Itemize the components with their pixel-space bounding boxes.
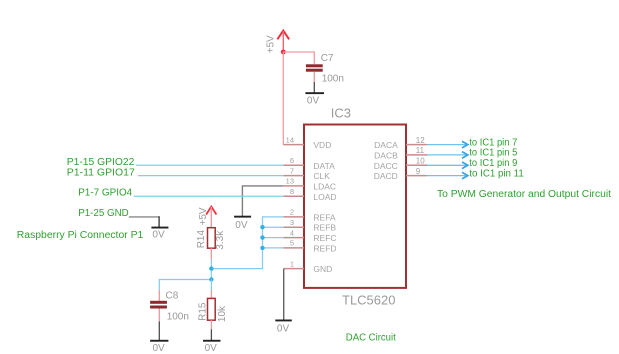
svg-text:LDAC: LDAC xyxy=(313,181,336,191)
svg-text:11: 11 xyxy=(416,146,425,155)
svg-text:9: 9 xyxy=(416,167,421,176)
svg-text:C7: C7 xyxy=(321,53,334,64)
resistor R14 xyxy=(196,228,226,269)
wire LDAC to ground xyxy=(242,186,283,216)
svg-text:to IC1 pin 11: to IC1 pin 11 xyxy=(469,168,524,179)
svg-text:3: 3 xyxy=(290,218,294,227)
svg-text:0V: 0V xyxy=(277,324,290,335)
svg-text:DAC Circuit: DAC Circuit xyxy=(346,333,396,344)
svg-text:P1-7 GPIO4: P1-7 GPIO4 xyxy=(78,188,132,199)
wire junction1 to junction2 xyxy=(210,269,212,280)
svg-text:TLC5620: TLC5620 xyxy=(342,292,395,307)
svg-text:7: 7 xyxy=(290,166,294,175)
wire GPIO4 to LOAD xyxy=(134,195,284,197)
svg-text:5: 5 xyxy=(290,239,294,248)
svg-text:P1-15 GPIO22: P1-15 GPIO22 xyxy=(67,157,135,168)
junction node 1 (R14 bottom) xyxy=(209,266,213,270)
svg-text:8: 8 xyxy=(290,187,294,196)
IC IC3 TLC5620 box xyxy=(304,125,406,288)
wire junction2 down to R15 xyxy=(210,280,212,291)
pin names left xyxy=(313,140,336,274)
svg-text:R14: R14 xyxy=(196,230,207,249)
ground 0V below C7 xyxy=(305,82,324,106)
svg-text:+5V: +5V xyxy=(198,207,209,225)
ground 0V (LDAC) xyxy=(234,216,251,232)
svg-text:REFD: REFD xyxy=(313,243,336,253)
svg-text:Raspberry Pi Connector P1: Raspberry Pi Connector P1 xyxy=(17,230,144,241)
wire GPIO22 to DATA xyxy=(136,164,283,166)
svg-text:+5V: +5V xyxy=(265,35,276,53)
wire DACD output arrow xyxy=(427,172,468,179)
svg-text:REFB: REFB xyxy=(313,223,336,233)
svg-text:To PWM Generator and Output Ci: To PWM Generator and Output Circuit xyxy=(437,189,611,200)
svg-text:10k: 10k xyxy=(217,305,228,322)
ground 0V (P1-25) xyxy=(151,227,168,241)
svg-text:1: 1 xyxy=(290,259,294,268)
svg-text:DACB: DACB xyxy=(374,150,398,160)
svg-text:0V: 0V xyxy=(235,220,248,231)
junction node +5V xyxy=(281,50,286,55)
svg-text:DACC: DACC xyxy=(374,161,398,171)
svg-text:12: 12 xyxy=(416,136,425,145)
svg-text:DACD: DACD xyxy=(374,171,398,181)
svg-text:0V: 0V xyxy=(153,343,166,354)
svg-text:0V: 0V xyxy=(307,95,320,106)
svg-text:P1-11 GPIO17: P1-11 GPIO17 xyxy=(67,167,135,178)
svg-text:R15: R15 xyxy=(198,302,209,321)
svg-text:3.3k: 3.3k xyxy=(215,230,226,250)
wire P1-25 GND to ground xyxy=(129,216,159,218)
wire junction2 to C8 xyxy=(159,280,211,291)
svg-text:GND: GND xyxy=(313,264,332,274)
svg-text:VDD: VDD xyxy=(313,140,331,150)
capacitor C8 xyxy=(150,290,189,322)
pin numbers right xyxy=(416,136,425,176)
wire REFD stub xyxy=(263,247,284,249)
wire REFC stub xyxy=(263,237,284,239)
svg-text:DACA: DACA xyxy=(374,140,398,150)
wire DACA output arrow xyxy=(427,141,468,148)
svg-text:0V: 0V xyxy=(152,230,165,241)
+5V supply symbol (top) xyxy=(265,31,289,54)
wire REF net: junction1 to REF pins vertical xyxy=(211,217,283,269)
svg-text:13: 13 xyxy=(286,177,294,186)
junction node REFC xyxy=(260,235,264,239)
+5V supply symbol (R14) xyxy=(198,207,217,228)
ground 0V (IC GND) xyxy=(275,320,292,335)
junction node 2 (to C8) xyxy=(209,277,213,281)
resistor R15 xyxy=(198,290,228,329)
wire REFB stub xyxy=(263,226,284,228)
svg-text:100n: 100n xyxy=(167,312,189,323)
svg-text:2: 2 xyxy=(290,208,294,217)
svg-text:LOAD: LOAD xyxy=(313,192,336,202)
wire +5V net: junction to C7 xyxy=(283,52,314,64)
junction node REFB xyxy=(260,225,264,229)
svg-text:100n: 100n xyxy=(322,73,344,84)
svg-text:IC3: IC3 xyxy=(331,105,351,120)
pin stubs right (DACA,DACB,DACC,DACD) xyxy=(406,145,427,176)
wire +5V net: junction down to VDD pin xyxy=(282,52,284,145)
pin numbers left xyxy=(286,135,294,268)
svg-text:P1-25 GND: P1-25 GND xyxy=(78,208,129,219)
junction node REFD xyxy=(260,246,264,250)
svg-text:to IC1 pin 5: to IC1 pin 5 xyxy=(469,148,517,159)
svg-text:0V: 0V xyxy=(205,343,218,354)
svg-text:C8: C8 xyxy=(166,291,179,302)
svg-text:10: 10 xyxy=(416,157,425,166)
svg-text:DATA: DATA xyxy=(313,161,335,171)
wire GND pin to ground xyxy=(283,269,285,320)
ground 0V below R15 xyxy=(203,329,221,354)
svg-text:14: 14 xyxy=(286,135,294,144)
pin stubs left (VDD,DATA,CLK,LDAC,LOAD,REFA,REFB,REFC,REFD,GND) xyxy=(283,145,304,269)
svg-text:REFC: REFC xyxy=(313,233,336,243)
capacitor C7 xyxy=(306,53,344,84)
svg-text:6: 6 xyxy=(290,156,294,165)
ground 0V below C8 xyxy=(150,322,168,354)
pin names right xyxy=(374,140,398,181)
wire GPIO17 to CLK xyxy=(138,175,283,177)
svg-text:4: 4 xyxy=(290,228,294,237)
wire DACC output arrow xyxy=(427,162,468,169)
svg-text:REFA: REFA xyxy=(313,212,336,222)
svg-text:CLK: CLK xyxy=(313,171,330,181)
wire DACB output arrow xyxy=(427,152,468,159)
